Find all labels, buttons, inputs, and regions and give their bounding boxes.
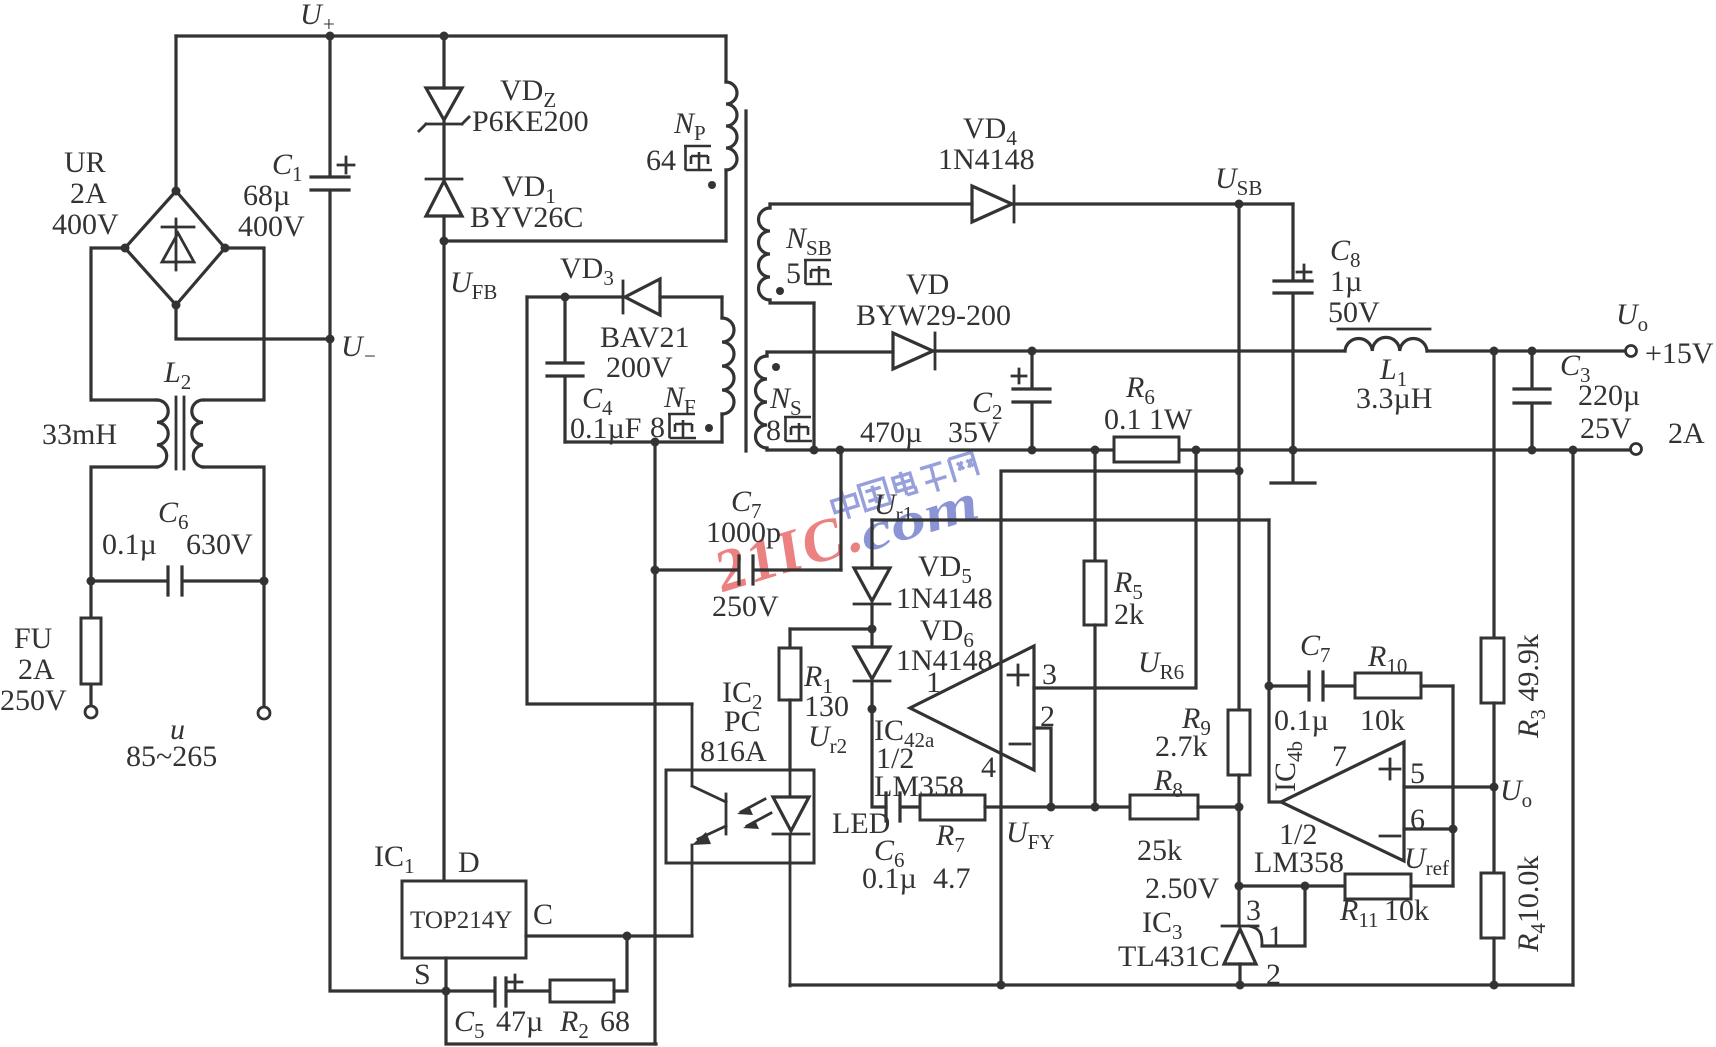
- node R6 left tap: [1091, 446, 1100, 455]
- svg-text:200V: 200V: [606, 351, 673, 384]
- svg-text:5: 5: [786, 257, 801, 290]
- node C2 top junction: [1028, 347, 1037, 356]
- diode VD BYW29-200: [893, 333, 935, 369]
- svg-text:R3 49.9k: R3 49.9k: [1512, 634, 1550, 739]
- wire U- down to S bus: [330, 339, 446, 991]
- node USB junction: [1235, 200, 1244, 209]
- svg-text:2.50V: 2.50V: [1145, 872, 1220, 905]
- svg-text:50V: 50V: [1328, 296, 1380, 329]
- resistor R5: [1084, 450, 1106, 807]
- wire R1 top to VD junction: [790, 627, 872, 630]
- fuse FU: [81, 581, 101, 705]
- svg-text:UR: UR: [64, 146, 106, 179]
- svg-text:TOP214Y: TOP214Y: [410, 907, 512, 934]
- svg-text:8: 8: [766, 414, 781, 447]
- capacitor C6 feedback: [886, 793, 920, 821]
- wire L2 left bottom: [91, 467, 157, 581]
- terminal input left: [85, 706, 97, 718]
- node TL431 anode junction: [1236, 981, 1245, 990]
- svg-text:10k: 10k: [1360, 704, 1405, 737]
- svg-text:3: 3: [1246, 894, 1261, 927]
- terminal +15V output: [1626, 346, 1637, 357]
- svg-text:D: D: [458, 846, 480, 879]
- node R4 bottom junction: [1490, 981, 1499, 990]
- op-amp IC4b: [1281, 742, 1404, 861]
- wire 2.50V to R11: [1239, 884, 1345, 887]
- svg-text:2A: 2A: [70, 177, 107, 210]
- capacitor C4: [547, 297, 583, 442]
- diode VD3 BAV21: [623, 279, 722, 315]
- svg-text:4.7: 4.7: [933, 862, 971, 895]
- node C3 bottom junction: [1528, 446, 1537, 455]
- diode VD6 1N4148: [854, 647, 890, 709]
- svg-text:VD: VD: [906, 268, 949, 301]
- svg-text:630V: 630V: [186, 528, 253, 561]
- svg-text:1µ: 1µ: [1330, 265, 1362, 298]
- svg-text:0.1µ: 0.1µ: [102, 528, 157, 561]
- wire right edge drop: [1571, 450, 1574, 985]
- node VD1 bottom junction: [440, 237, 449, 246]
- svg-text:0.1 1W: 0.1 1W: [1104, 403, 1193, 436]
- wire Ur1 corner to IC4b input node: [1267, 520, 1270, 686]
- svg-text:25V: 25V: [1580, 412, 1632, 445]
- wire VD3 node feedback drop: [527, 297, 692, 704]
- svg-text:2.7k: 2.7k: [1155, 730, 1208, 763]
- wire VD3 node horizontal: [527, 295, 623, 298]
- svg-text:2A: 2A: [1668, 417, 1705, 450]
- diode VD1 BYV26C: [426, 179, 462, 241]
- resistor R4: [1481, 787, 1504, 985]
- node R8 R9 junction: [1235, 803, 1244, 812]
- svg-text:BYW29-200: BYW29-200: [856, 299, 1011, 332]
- shunt regulator IC3 TL431C: [1222, 886, 1305, 985]
- wire bridge left stub: [91, 248, 157, 400]
- phototransistor of IC2: [692, 704, 726, 936]
- IC1 TOP214Y box: [402, 881, 526, 958]
- svg-text:35V: 35V: [948, 416, 1000, 449]
- transformer winding NP: [726, 36, 737, 241]
- wire NS to VD rectifier: [767, 350, 893, 353]
- wire U+ bus left drop to bridge: [174, 36, 177, 189]
- svg-text:25k: 25k: [1137, 834, 1182, 867]
- wire IC1 C pin: [526, 934, 692, 937]
- node op-amp output junction: [868, 705, 877, 714]
- wire NF return down to S loop: [653, 442, 656, 1044]
- node C6 right junction: [260, 577, 269, 586]
- node supply column junction: [1235, 467, 1244, 476]
- light arrows of IC2: [737, 799, 771, 829]
- svg-text:P6KE200: P6KE200: [472, 105, 589, 138]
- diode VD4 1N4148: [972, 186, 1293, 222]
- node C8 return junction: [1289, 446, 1298, 455]
- resistor R6 current sense: [1114, 437, 1179, 462]
- svg-text:68µ: 68µ: [243, 179, 290, 212]
- node bus to bottom junction: [1569, 446, 1578, 455]
- svg-text:220µ: 220µ: [1578, 379, 1640, 412]
- node Uo divider junction: [1490, 783, 1499, 792]
- svg-text:2A: 2A: [18, 653, 55, 686]
- node U- junction: [326, 335, 335, 344]
- wire pin6 to feedback: [1404, 827, 1453, 830]
- svg-text:0.1µF: 0.1µF: [570, 412, 641, 445]
- svg-text:BYV26C: BYV26C: [470, 201, 583, 234]
- node IC4b feedback junction: [1265, 682, 1274, 691]
- svg-text:1N4148: 1N4148: [896, 644, 993, 677]
- svg-text:BAV21: BAV21: [600, 321, 689, 354]
- wire output to UFY corner: [872, 709, 886, 807]
- node C7 left junction: [651, 566, 660, 575]
- svg-text:R410.0k: R410.0k: [1512, 856, 1550, 953]
- svg-text:250V: 250V: [0, 684, 67, 717]
- node R5 UFY junction: [1091, 803, 1100, 812]
- node NP polarity dot: [708, 181, 716, 189]
- watermark chinese blue: [829, 450, 979, 522]
- svg-text:130: 130: [804, 690, 849, 723]
- svg-text:1: 1: [1268, 920, 1283, 953]
- terminal 2A return: [1631, 444, 1642, 455]
- terminal input right: [258, 707, 270, 719]
- node NF polarity dot: [705, 424, 713, 432]
- svg-text:68: 68: [600, 1005, 630, 1038]
- wire IC4b output riser: [1269, 686, 1281, 802]
- svg-text:1N4148: 1N4148: [938, 143, 1035, 176]
- capacitor C7 compensation: [1269, 672, 1355, 700]
- svg-text:0.1µ: 0.1µ: [862, 862, 917, 895]
- wire NSB bottom drop: [812, 303, 815, 450]
- svg-text:400V: 400V: [238, 210, 305, 243]
- svg-text:2k: 2k: [1114, 598, 1144, 631]
- wire pin5 to Uo node: [1404, 785, 1494, 788]
- svg-text:7: 7: [1332, 740, 1347, 773]
- svg-text:1N4148: 1N4148: [896, 582, 993, 615]
- svg-text:TL431C: TL431C: [1118, 940, 1220, 973]
- watermark 21IC red: [703, 496, 876, 607]
- node NS return junction: [810, 446, 819, 455]
- wire pin2 jog to UFY: [1034, 728, 1051, 807]
- node TL431 ref junction: [1301, 882, 1310, 891]
- node C pin junction: [623, 932, 632, 941]
- svg-text:250V: 250V: [712, 590, 779, 623]
- resistor R10: [1355, 673, 1453, 698]
- node rail C3 junction: [1528, 347, 1537, 356]
- svg-text:0.1µ: 0.1µ: [1274, 704, 1329, 737]
- node bridge left junction: [121, 244, 130, 253]
- resistor R8: [1130, 795, 1239, 819]
- wire bridge bottom to U-: [176, 305, 330, 339]
- resistor R11: [1345, 874, 1453, 899]
- node supply column bottom junction: [997, 981, 1006, 990]
- svg-text:+15V: +15V: [1645, 337, 1714, 370]
- wire +15V rail: [935, 349, 1625, 352]
- svg-text:10k: 10k: [1384, 894, 1429, 927]
- node S junction: [442, 987, 451, 996]
- zener diode VDz P6KE200: [419, 36, 469, 179]
- resistor R7: [920, 795, 1130, 820]
- node pin6 junction: [1449, 825, 1458, 834]
- capacitor C6 input X-cap: [91, 567, 264, 595]
- svg-text:4: 4: [981, 751, 996, 784]
- svg-text:C: C: [533, 898, 553, 931]
- svg-text:85~265: 85~265: [126, 740, 217, 773]
- node pin2 UFY junction: [1047, 803, 1056, 812]
- svg-text:FU: FU: [14, 622, 53, 655]
- wire VD1 junction to NP bottom: [444, 239, 726, 242]
- wire C7 right riser: [839, 450, 842, 570]
- diode VD5 1N4148: [854, 520, 890, 647]
- svg-text:6: 6: [1410, 803, 1425, 836]
- node bridge top junction: [172, 187, 181, 196]
- wire S return loop: [446, 991, 656, 1044]
- capacitor C7 1000p Y-cap: [655, 556, 841, 584]
- node NF return junction: [651, 438, 660, 447]
- wire UFB line down to IC1 D: [442, 241, 445, 881]
- node C6 left junction: [87, 577, 96, 586]
- node VD3 cathode junction: [561, 293, 570, 302]
- transformer winding NS: [756, 352, 767, 450]
- capacitor C1: [311, 36, 354, 339]
- node C7 riser junction: [836, 446, 845, 455]
- node R6 right tap: [1192, 446, 1201, 455]
- inductor L2 common-mode choke: [157, 397, 203, 469]
- wire right input drop: [262, 581, 265, 706]
- wire bridge right stub: [205, 248, 264, 400]
- svg-text:1: 1: [926, 666, 941, 699]
- ground symbol: [1271, 450, 1315, 483]
- svg-text:LM358: LM358: [1254, 846, 1344, 879]
- node NS polarity dot: [772, 363, 780, 371]
- wire IC1 S pin: [444, 958, 447, 991]
- svg-text:33mH: 33mH: [42, 418, 117, 451]
- svg-text:64: 64: [646, 144, 676, 177]
- bridge rectifier UR: [125, 191, 225, 305]
- wire return bus: [767, 448, 1630, 451]
- svg-text:S: S: [414, 958, 431, 991]
- node bridge right junction: [221, 244, 230, 253]
- svg-text:816A: 816A: [700, 735, 767, 768]
- wire NF bottom horizontal: [565, 440, 722, 443]
- node C1 top junction: [326, 32, 335, 41]
- svg-text:5: 5: [1410, 757, 1425, 790]
- svg-text:1000p: 1000p: [706, 516, 781, 549]
- svg-text:3.3µH: 3.3µH: [1356, 382, 1432, 415]
- node NSB polarity dot: [776, 287, 784, 295]
- svg-text:47µ: 47µ: [496, 1005, 543, 1038]
- transformer winding NSB: [759, 204, 815, 303]
- svg-text:400V: 400V: [52, 208, 119, 241]
- capacitor C5: [446, 975, 550, 1006]
- inductor L1: [1338, 329, 1430, 351]
- node 2.50V junction: [1235, 882, 1244, 891]
- resistor R2: [550, 936, 627, 1002]
- transformer winding NF: [722, 297, 734, 442]
- wire supply column: [1001, 471, 1239, 985]
- node rail R3 junction: [1490, 347, 1499, 356]
- resistor R1: [779, 629, 801, 770]
- LED of IC2: [773, 770, 809, 986]
- node bridge bottom junction: [172, 301, 181, 310]
- node VDz top junction: [440, 32, 449, 41]
- wire Ur1 line: [872, 518, 1269, 521]
- wire U+ top bus: [176, 34, 726, 37]
- op-amp IC42a: [910, 646, 1034, 770]
- transformer core: [744, 111, 747, 451]
- node VD5 VD6 junction: [868, 625, 877, 634]
- wire feedback column: [1451, 686, 1454, 886]
- wire NSB to VD4: [770, 202, 972, 205]
- resistor R3: [1481, 351, 1504, 787]
- capacitor C8: [1274, 204, 1312, 450]
- capacitor C3: [1514, 351, 1550, 450]
- wire bottom bus: [790, 983, 1573, 986]
- watermark com blue: [853, 473, 985, 563]
- node C2 bottom junction: [1028, 446, 1037, 455]
- optocoupler IC2 PC816A box: [666, 770, 814, 863]
- capacitor C2: [1012, 351, 1050, 450]
- wire pin3 to R6 right tap: [1034, 450, 1196, 688]
- svg-text:PC: PC: [724, 705, 761, 738]
- svg-text:470µ: 470µ: [860, 416, 922, 449]
- wire USB column down: [1237, 204, 1240, 710]
- wire L2 right bottom: [203, 467, 264, 581]
- resistor R9: [1228, 710, 1250, 886]
- svg-text:3: 3: [1042, 658, 1057, 691]
